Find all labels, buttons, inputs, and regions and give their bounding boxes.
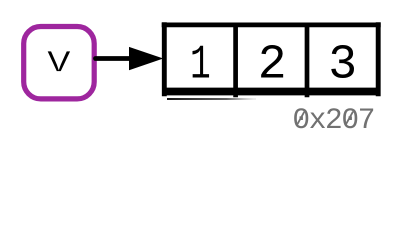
array box bottom edge (thick double stroke) bbox=[162, 88, 379, 96]
node v label bbox=[45, 39, 72, 83]
cell divider 1 bbox=[233, 25, 238, 97]
array box right edge bbox=[376, 22, 381, 96]
svg-text:3: 3 bbox=[328, 38, 357, 92]
node v (rounded variable box) bbox=[24, 27, 95, 99]
wire (arrow shaft) bbox=[96, 56, 137, 61]
svg-text:0x207: 0x207 bbox=[292, 103, 375, 137]
array box top edge bbox=[162, 23, 381, 28]
slashed-zero mark 2 bbox=[346, 112, 353, 125]
svg-text:v: v bbox=[45, 39, 72, 83]
arrowhead bbox=[129, 47, 163, 70]
cell value 1 bbox=[190, 37, 211, 92]
slashed-zero mark 1 bbox=[297, 112, 304, 125]
svg-text:2: 2 bbox=[258, 38, 287, 92]
cell divider 2 bbox=[305, 25, 310, 97]
svg-text:1: 1 bbox=[190, 37, 211, 92]
stray pen line under box bbox=[167, 98, 256, 100]
array box left edge bbox=[162, 22, 167, 96]
